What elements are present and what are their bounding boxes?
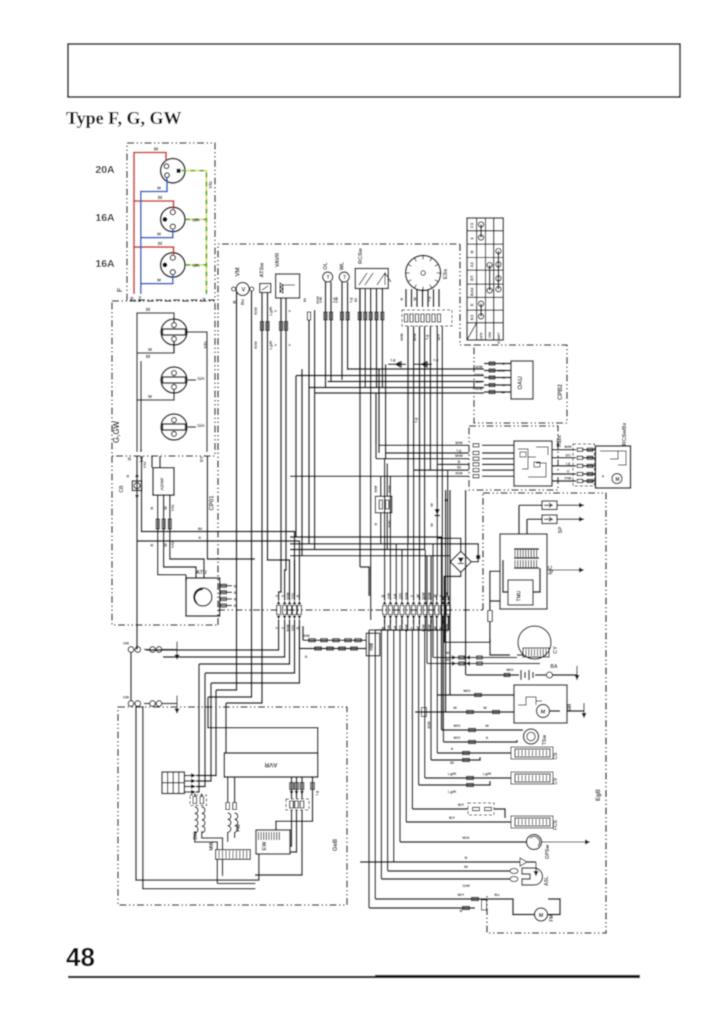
svg-text:A: A	[486, 736, 489, 740]
svg-text:+: +	[602, 474, 605, 480]
svg-text:M/O: M/O	[506, 668, 513, 672]
svg-text:DY: DY	[199, 456, 204, 462]
svg-text:W: W	[485, 724, 489, 728]
svg-text:Lg: Lg	[434, 357, 439, 362]
svg-text:Bl: Bl	[158, 241, 163, 246]
svg-text:Lg: Lg	[566, 461, 570, 465]
svg-text:Bl: Bl	[457, 466, 461, 470]
svg-text:ADNF: ADNF	[160, 477, 166, 490]
svg-text:BA: BA	[550, 664, 558, 670]
svg-text:A: A	[502, 384, 505, 388]
svg-text:Y/G: Y/G	[142, 462, 147, 469]
svg-text:F: F	[117, 287, 124, 292]
svg-text:G,GW: G,GW	[112, 420, 121, 443]
svg-text:ATU: ATU	[196, 570, 207, 576]
svg-text:B: B	[458, 460, 461, 464]
svg-text:X: X	[202, 297, 207, 300]
svg-text:G/A: G/A	[197, 423, 204, 428]
svg-text:R/W: R/W	[455, 472, 463, 476]
svg-text:R/W: R/W	[286, 592, 290, 600]
svg-text:Lg/R: Lg/R	[483, 772, 492, 776]
svg-text:B/W: B/W	[455, 441, 463, 445]
svg-text:CV: CV	[553, 777, 559, 785]
svg-text:W: W	[163, 506, 168, 510]
svg-text:START: START	[497, 331, 501, 344]
svg-text:M/O: M/O	[463, 689, 470, 693]
svg-text:Y: Y	[287, 309, 292, 312]
svg-text:CB: CB	[119, 485, 125, 493]
svg-text:O/W: O/W	[462, 884, 470, 888]
svg-text:Bl: Bl	[158, 195, 163, 200]
svg-text:R/W: R/W	[253, 307, 258, 315]
svg-text:HM: HM	[369, 643, 375, 651]
svg-text:Y: Y	[273, 343, 278, 346]
svg-text:Lg: Lg	[413, 417, 418, 422]
svg-text:G/A: G/A	[192, 218, 199, 223]
svg-text:ASL: ASL	[544, 876, 550, 886]
svg-text:D: D	[502, 362, 505, 366]
svg-text:M: M	[157, 186, 161, 191]
svg-text:W: W	[453, 706, 457, 710]
svg-text:EW: EW	[262, 841, 268, 851]
svg-text:V: V	[241, 288, 245, 294]
svg-text:BA0: BA0	[469, 287, 474, 296]
svg-text:B/W: B/W	[565, 445, 573, 449]
svg-text:B/W: B/W	[412, 333, 417, 341]
svg-text:EgB: EgB	[596, 788, 602, 801]
svg-text:Bl: Bl	[464, 865, 468, 869]
svg-text:Bl: Bl	[146, 354, 151, 359]
svg-text:Bl: Bl	[154, 147, 159, 152]
svg-text:RBx: RBx	[557, 434, 563, 447]
svg-text:ATSw: ATSw	[260, 262, 266, 278]
svg-text:OFF: OFF	[479, 331, 484, 340]
svg-text:W: W	[429, 503, 434, 507]
svg-text:Y: Y	[287, 343, 292, 346]
svg-text:Lg: Lg	[391, 357, 396, 362]
svg-text:T: T	[327, 275, 330, 281]
svg-text:CP01: CP01	[210, 495, 216, 511]
svg-text:FM: FM	[549, 914, 555, 921]
svg-text:SP: SP	[558, 526, 564, 533]
svg-text:F3: F3	[469, 222, 474, 228]
svg-text:A: A	[502, 376, 505, 380]
svg-text:M: M	[615, 477, 619, 483]
svg-text:16A: 16A	[95, 258, 115, 270]
svg-text:Y/G: Y/G	[170, 542, 175, 549]
svg-text:R/W: R/W	[374, 485, 378, 493]
svg-text:OPSw: OPSw	[545, 845, 551, 860]
svg-text:M: M	[157, 278, 161, 283]
svg-text:M: M	[148, 347, 152, 352]
svg-text:B: B	[374, 522, 378, 525]
svg-text:O: O	[567, 470, 570, 474]
svg-text:Bu: Bu	[240, 299, 245, 305]
svg-text:M: M	[541, 710, 546, 716]
svg-text:W: W	[483, 706, 487, 710]
svg-text:3/C: 3/C	[565, 453, 571, 457]
svg-text:20A: 20A	[95, 164, 115, 176]
svg-text:Y/G: Y/G	[170, 505, 175, 512]
svg-text:Bl: Bl	[353, 298, 358, 302]
svg-text:W/V: W/V	[453, 724, 461, 728]
svg-text:W/B: W/B	[399, 333, 404, 341]
svg-text:Y/G: Y/G	[203, 341, 208, 349]
svg-text:T: T	[343, 275, 346, 281]
svg-text:W: W	[429, 523, 434, 527]
svg-text:Lg: Lg	[426, 296, 431, 301]
svg-text:A3: A3	[469, 261, 474, 267]
svg-text:Bl: Bl	[198, 526, 202, 531]
svg-text:R/W: R/W	[253, 341, 258, 349]
svg-text:Bl: Bl	[450, 761, 454, 765]
svg-text:OAU: OAU	[518, 376, 524, 389]
svg-text:M: M	[539, 913, 544, 919]
svg-text:VAVR: VAVR	[275, 253, 281, 267]
svg-text:W/A: W/A	[462, 836, 470, 840]
svg-text:16A: 16A	[95, 212, 115, 224]
svg-text:ON: ON	[487, 332, 492, 338]
svg-text:OB: OB	[123, 641, 129, 646]
svg-text:Bl: Bl	[302, 298, 307, 302]
svg-text:B: B	[149, 543, 154, 546]
svg-text:TMU: TMU	[517, 590, 523, 601]
svg-text:Bu: Bu	[494, 893, 500, 897]
svg-text:B: B	[469, 250, 474, 253]
svg-text:Bl: Bl	[501, 391, 505, 395]
svg-text:Y/R: Y/R	[334, 297, 339, 304]
svg-text:48: 48	[66, 942, 95, 972]
svg-text:M: M	[157, 232, 161, 237]
svg-text:Bl: Bl	[146, 307, 151, 312]
svg-text:CPB2: CPB2	[558, 383, 564, 400]
svg-text:B: B	[305, 655, 308, 659]
svg-text:CY: CY	[553, 646, 559, 654]
svg-text:Lg: Lg	[457, 449, 462, 453]
svg-text:FW: FW	[236, 824, 242, 832]
svg-text:BT: BT	[469, 275, 474, 281]
svg-text:W: W	[163, 543, 168, 547]
svg-text:SW: SW	[193, 832, 199, 840]
svg-text:Type F, G, GW: Type F, G, GW	[66, 108, 182, 128]
svg-text:GeB: GeB	[333, 838, 339, 851]
svg-text:G/A: G/A	[192, 263, 199, 268]
svg-text:B/Y: B/Y	[449, 816, 456, 820]
svg-text:K3: K3	[469, 314, 474, 320]
svg-text:W/V: W/V	[453, 736, 461, 740]
svg-text:B: B	[465, 856, 468, 860]
svg-text:Lg/R: Lg/R	[448, 790, 457, 794]
svg-text:W: W	[412, 297, 417, 301]
svg-text:OL: OL	[323, 262, 329, 270]
svg-text:Lg/R: Lg/R	[448, 772, 457, 776]
svg-text:RCSw: RCSw	[358, 247, 364, 264]
svg-text:RCSwBx: RCSwBx	[622, 422, 628, 446]
svg-text:R: R	[399, 297, 404, 300]
svg-text:WL: WL	[340, 261, 346, 270]
svg-text:A/W: A/W	[498, 369, 506, 373]
svg-text:A: A	[451, 747, 454, 751]
svg-text:B/Y: B/Y	[458, 803, 465, 807]
svg-text:P/W: P/W	[565, 477, 572, 481]
svg-text:OB: OB	[123, 695, 129, 700]
svg-text:TSw: TSw	[542, 735, 548, 745]
svg-text:B: B	[126, 474, 130, 477]
svg-text:B: B	[149, 506, 154, 509]
svg-text:AVR: AVR	[264, 761, 278, 768]
svg-text:M/W: M/W	[455, 454, 463, 458]
svg-text:Y/G: Y/G	[208, 181, 213, 189]
svg-text:K: K	[199, 535, 202, 540]
svg-text:VM: VM	[236, 267, 242, 276]
svg-text:M/Y: M/Y	[458, 893, 465, 897]
svg-text:MW: MW	[209, 841, 215, 850]
svg-text:G/A: G/A	[197, 376, 204, 381]
svg-text:Y/R: Y/R	[318, 297, 323, 304]
svg-text:ESs: ESs	[443, 269, 449, 279]
svg-text:E: E	[469, 303, 474, 306]
svg-text:CS: CS	[553, 752, 559, 760]
svg-text:3l: 3l	[127, 457, 132, 461]
svg-text:Lg: Lg	[315, 790, 319, 795]
svg-text:Y: Y	[273, 309, 278, 312]
svg-text:M: M	[148, 394, 152, 399]
svg-text:FCS: FCS	[553, 819, 559, 830]
